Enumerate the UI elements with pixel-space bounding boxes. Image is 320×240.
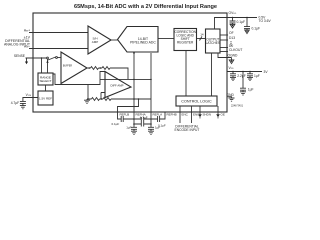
svg-text:ANALOG INPUT: ANALOG INPUT xyxy=(4,43,31,47)
svg-text:SHDN: SHDN xyxy=(203,112,212,116)
svg-text:OVDD: OVDD xyxy=(229,11,237,15)
wire OGND xyxy=(218,53,232,58)
chip outline U1 xyxy=(33,13,227,112)
wire OVDD xyxy=(215,18,258,30)
capacitor 0.1uF REFLB xyxy=(121,116,134,122)
ground below VCM cap xyxy=(20,106,26,109)
block 1.5V REFERENCE xyxy=(38,91,53,105)
wire diff amp top rail xyxy=(100,78,151,80)
pin ENC+ xyxy=(179,106,181,123)
svg-text:SENSE: SENSE xyxy=(14,54,26,58)
switch wiper arrowhead xyxy=(46,60,48,63)
svg-text:TO 3.6V: TO 3.6V xyxy=(259,19,272,23)
svg-text:PIPELINED ADC: PIPELINED ADC xyxy=(130,41,156,45)
svg-text:ENCODE INPUT: ENCODE INPUT xyxy=(175,128,200,132)
ground below 0.1uF VDD xyxy=(247,77,253,80)
wire range select to reference xyxy=(45,85,47,91)
svg-text:VCM: VCM xyxy=(26,93,32,97)
svg-text:1µF: 1µF xyxy=(126,126,131,130)
svg-text:2248 TA01: 2248 TA01 xyxy=(231,105,244,108)
ground on lower rail xyxy=(84,99,90,103)
resistor R3 xyxy=(92,98,100,101)
wire output D13 xyxy=(220,39,228,41)
node junction REFHA lower rail xyxy=(133,98,135,100)
wire tap down to lower rail xyxy=(87,85,89,100)
node junction rail 2 xyxy=(100,67,102,69)
pin ENC- xyxy=(191,106,193,123)
ground below REFLA cap xyxy=(148,131,154,134)
svg-text:OF: OF xyxy=(229,31,234,35)
wire ADC core to correction logic xyxy=(158,38,174,40)
op-amp BUFFER xyxy=(61,52,87,84)
node junction on SENSE xyxy=(41,57,43,59)
svg-text:14: 14 xyxy=(200,33,204,37)
block OUTPUT LATCHES xyxy=(206,29,221,53)
svg-text:2.2µF: 2.2µF xyxy=(237,74,246,78)
node junction VDD 2 xyxy=(242,71,244,73)
svg-text:0.1µF: 0.1µF xyxy=(237,20,246,24)
op-amp S/H xyxy=(88,26,111,54)
svg-text:REFLB: REFLB xyxy=(120,112,130,116)
capacitor 1uF REFLA to gnd xyxy=(148,127,154,131)
wire switch to range select xyxy=(47,59,49,73)
block 14-BIT PIPELINED ADC CORE xyxy=(118,27,159,53)
ground below REFHA cap xyxy=(131,131,137,134)
ground OGND xyxy=(229,58,234,64)
capacitor 1uF REFHA to gnd xyxy=(131,127,137,131)
svg-text:CLKOUT: CLKOUT xyxy=(229,48,242,52)
svg-text:DIFF AMP: DIFF AMP xyxy=(111,83,124,87)
svg-text:1µF: 1µF xyxy=(254,74,260,78)
op-amp DIFF AMP xyxy=(105,72,131,98)
pin SHDN xyxy=(199,106,201,114)
svg-text:OE: OE xyxy=(221,112,225,116)
svg-text:BUFFER: BUFFER xyxy=(63,66,73,68)
capacitor 0.1uF second on OVDD xyxy=(244,18,250,31)
ground GND xyxy=(229,98,235,101)
svg-text:65Msps, 14-Bit ADC with a 2V D: 65Msps, 14-Bit ADC with a 2V Differentia… xyxy=(74,4,217,10)
resistor R4 xyxy=(103,98,111,101)
wire S/H to ADC core xyxy=(111,39,118,41)
svg-text:REFHB: REFHB xyxy=(167,112,177,116)
svg-text:REGISTER: REGISTER xyxy=(177,40,194,44)
wire SENSE xyxy=(26,57,47,59)
wire REFLA vertical xyxy=(150,53,152,112)
pin REFHB xyxy=(160,112,165,119)
wire output D0 xyxy=(220,47,228,49)
svg-text:OGND: OGND xyxy=(228,54,239,58)
ground OE xyxy=(216,114,220,117)
node junction OVDD 2 xyxy=(246,17,248,19)
switch S1 xyxy=(47,57,49,59)
pin REFHA xyxy=(133,112,135,127)
wire output latches to control logic xyxy=(211,53,213,96)
svg-text:AIN+: AIN+ xyxy=(24,29,30,33)
wire range select tap xyxy=(53,72,105,85)
node junction rail 1 xyxy=(89,67,91,69)
svg-text:ENC: ENC xyxy=(182,112,189,116)
node junction VDD 1 xyxy=(232,71,234,73)
capacitor 1uF on VDD xyxy=(240,72,246,92)
ground below first OVDD cap xyxy=(230,24,235,28)
svg-text:1.5V REF: 1.5V REF xyxy=(39,96,52,100)
wire AIN- xyxy=(29,48,88,50)
ground below second OVDD cap xyxy=(245,30,250,34)
svg-text:4.7µF: 4.7µF xyxy=(11,101,20,105)
wire REFLB internal xyxy=(118,99,139,112)
node junction diff rail c xyxy=(150,79,152,81)
capacitor 4.7uF between refs xyxy=(134,117,151,127)
wire REFHA vertical xyxy=(133,53,135,112)
capacitor 0.1uF on OVDD xyxy=(230,18,236,25)
capacitor C-VCM 4.7uF xyxy=(20,101,26,105)
node junction VDD 3 xyxy=(249,71,251,73)
svg-text:AMP: AMP xyxy=(92,40,99,44)
node junction OVDD 1 xyxy=(232,17,234,19)
svg-text:VDD: VDD xyxy=(229,66,235,70)
svg-text:CONTROL LOGIC: CONTROL LOGIC xyxy=(181,99,212,103)
wire switch to buffer xyxy=(57,57,61,59)
svg-text:D13: D13 xyxy=(229,36,235,40)
wire VDD xyxy=(227,71,262,73)
wire REFLA down xyxy=(150,112,152,127)
node junction lower rail 2 xyxy=(87,98,89,100)
svg-text:1µF: 1µF xyxy=(248,87,254,91)
wire VCM xyxy=(23,98,38,102)
svg-text:4.7µF: 4.7µF xyxy=(140,115,148,119)
ground below 2.2uF xyxy=(230,77,236,80)
wire output CLKOUT xyxy=(220,51,228,53)
svg-text:0.1µF: 0.1µF xyxy=(112,122,120,126)
svg-text:REFLA: REFLA xyxy=(153,112,163,116)
node junction lower rail xyxy=(101,98,103,100)
ground below 1uF xyxy=(240,92,246,95)
pin REFLB xyxy=(118,112,122,119)
resistor R2 xyxy=(102,67,110,70)
wire AIN+ xyxy=(29,32,88,34)
resistor R1 xyxy=(91,67,99,70)
svg-text:SELECT: SELECT xyxy=(39,79,51,83)
svg-text:0.1µF: 0.1µF xyxy=(252,27,261,31)
node ellipsis dots xyxy=(230,41,231,42)
capacitor 0.1uF REFHB xyxy=(151,116,160,122)
node junction REFHA top xyxy=(133,52,135,54)
wire output OF xyxy=(220,34,228,36)
wire SENSE to range select xyxy=(41,58,43,73)
node junction diff rail b xyxy=(133,79,135,81)
wire upper reference rail xyxy=(87,68,128,79)
ground SHDN xyxy=(198,114,202,117)
block CORRECTION LOGIC AND SHIFT REGISTER xyxy=(174,29,197,51)
pin OE xyxy=(217,106,219,114)
capacitor 2.2uF on VDD xyxy=(230,72,236,78)
wire diff amp lower input xyxy=(101,93,105,100)
ground arrow on SENSE xyxy=(26,58,28,62)
wire lower reference rail xyxy=(87,98,151,100)
wire bus 14 xyxy=(197,38,206,40)
node junction reflb tie xyxy=(138,98,140,100)
node junction REFLA xyxy=(150,118,152,120)
svg-text:0.1µF: 0.1µF xyxy=(158,124,166,128)
node junction REFHA xyxy=(133,118,135,120)
svg-text:LATCHES: LATCHES xyxy=(206,41,220,45)
wire correction logic to control logic xyxy=(185,51,187,97)
wire GND xyxy=(227,97,232,98)
svg-text:3V: 3V xyxy=(264,70,269,74)
block RANGE SELECT xyxy=(38,73,53,85)
capacitor 0.1uF on VDD xyxy=(247,72,253,78)
block CONTROL LOGIC xyxy=(176,96,217,106)
